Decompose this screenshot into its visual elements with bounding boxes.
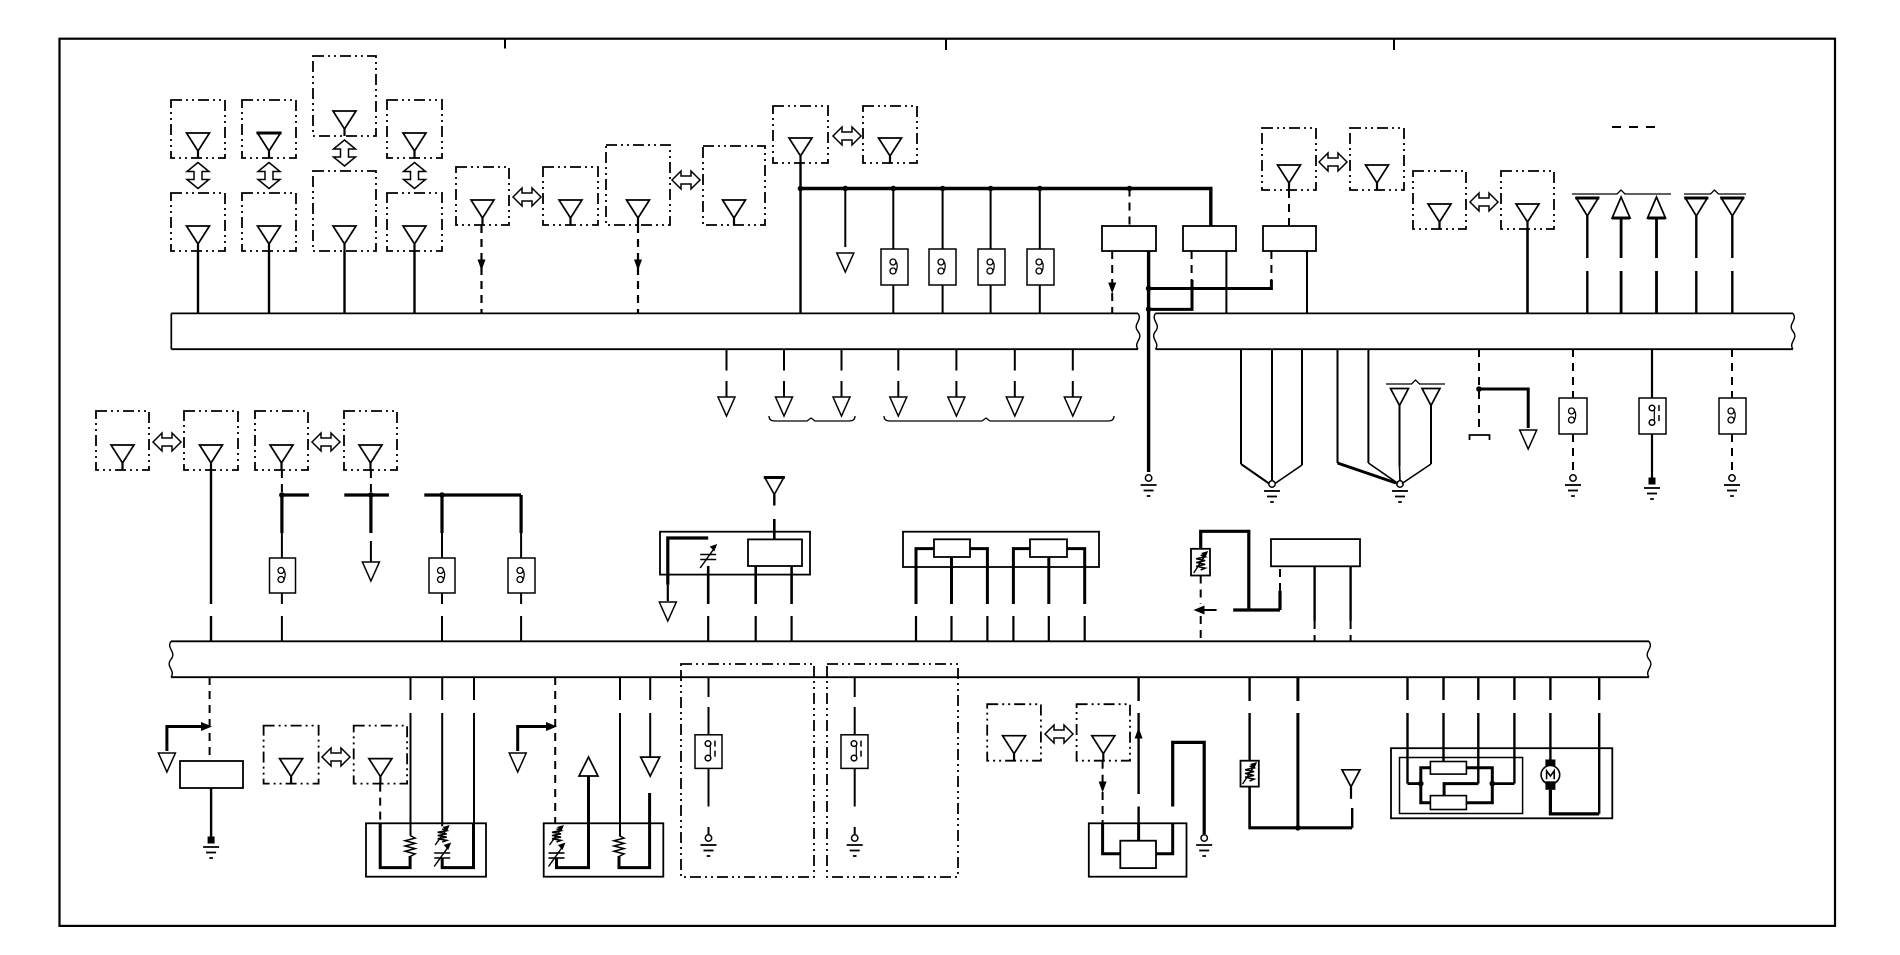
mating arrow I1-I2 [1470, 193, 1498, 211]
ground relay (bolted) [203, 837, 219, 859]
bottom amp module [1120, 841, 1156, 868]
connector box G1 [773, 106, 828, 163]
VR1 top link [1201, 531, 1249, 610]
wire R2 to bus 2 [619, 677, 621, 836]
spare dashed mark [1612, 126, 1656, 128]
wire J4 to tee [370, 470, 372, 495]
wire right link to bus 2 [473, 677, 475, 823]
terminal T3 (up) [1648, 197, 1666, 218]
feeder wire J2 to bus 2 [210, 470, 212, 641]
coil L7 [270, 558, 296, 593]
mating arrow A1-A2 [187, 163, 209, 189]
control output 1 to bus 2 [1314, 621, 1316, 641]
fold mark tick 2 [945, 38, 947, 50]
connector box F1 [606, 145, 670, 225]
ground fan 1 [1264, 481, 1280, 502]
wire to coil L7 [281, 533, 283, 558]
amp M1 right lead [970, 549, 987, 604]
amp in link [1103, 823, 1121, 854]
wire R1 to bus 2 [410, 677, 412, 836]
wire K2 left [1191, 251, 1193, 281]
motor wire 1 [1408, 677, 1421, 784]
rail junction 6 [1127, 186, 1133, 192]
wire B2 to bus [268, 251, 270, 313]
amp M2 right lead [1067, 549, 1085, 604]
bus output wire 6 [1014, 349, 1016, 398]
wire F1 to bus [637, 225, 639, 313]
wire bus 2 to VR4 [1248, 677, 1250, 761]
wire rail to coil L1 [892, 189, 894, 250]
fan wire 1c [1275, 349, 1302, 484]
wire L4 to bus [1039, 285, 1041, 313]
connector box J4 [344, 411, 397, 470]
motor wire 3 z-link [1444, 677, 1478, 796]
variable resistor VR1 element [1194, 551, 1209, 573]
amp M2 right lead to bus 2 [1084, 616, 1086, 641]
switch SW1 ground wire [708, 768, 710, 834]
RB1 right riser [1466, 768, 1492, 784]
underbrace group 1 [769, 416, 855, 421]
wire D2 to bus [413, 251, 415, 313]
riser junction [1418, 781, 1424, 787]
resistor pack 2 left link [557, 776, 589, 868]
amp M2 centre lead to bus 2 [1048, 616, 1050, 641]
rail junction 3 [940, 186, 946, 192]
wire rail to coil L2 [942, 189, 944, 250]
bus bar 2 [169, 641, 1651, 677]
wire VR2 to bus 2 [441, 677, 443, 826]
ground for trunk [1141, 475, 1157, 496]
tuner cap output wire [707, 566, 710, 604]
signal arrow on wire F1 [634, 260, 642, 271]
ground S1 (bolted) [1644, 478, 1660, 500]
amp M1 centre lead to bus 2 [950, 616, 952, 641]
variable resistor VR1 box [1191, 549, 1210, 576]
wire T5 to bus [1731, 216, 1733, 313]
mating arrow D1-D2 [404, 163, 426, 189]
roof antenna [764, 478, 785, 506]
dashed drop with tee [1478, 349, 1480, 431]
wire T2 to bus [1620, 218, 1623, 313]
wire K3 right to bus [1306, 251, 1308, 313]
resistor R2 [614, 836, 624, 857]
terminal group overline 2 [1684, 190, 1746, 194]
branch arrow into VR3 drop [518, 722, 557, 751]
ground SW2 [847, 835, 863, 856]
wire C2 to bus [343, 251, 345, 313]
tuner module output 1 [754, 566, 757, 604]
link rail riser [1278, 591, 1281, 610]
bus output wire 7 [1072, 349, 1074, 398]
mating arrow H1-H2 [1319, 153, 1347, 171]
control output 2 to bus 2 [1350, 621, 1352, 641]
RB1 left riser [1421, 768, 1431, 803]
amp M2 left lead to bus 2 [1012, 616, 1014, 641]
tee terminal [1470, 435, 1490, 440]
open arrow left 1 [158, 753, 175, 772]
connector box J1 [96, 411, 149, 470]
tuner unit box [660, 532, 810, 575]
amp side loop to ground [1173, 742, 1205, 834]
fan wire 1b [1271, 349, 1273, 480]
open arrow under tuner [659, 585, 676, 621]
mating arrow E1-E2 [513, 188, 541, 206]
amp module M1 [934, 539, 970, 557]
amp module M2 [1030, 539, 1067, 557]
connector box P1 [987, 704, 1041, 761]
connector box A1 [171, 100, 225, 158]
connector box H1 [1262, 128, 1316, 190]
wire bus to contact S1 [1651, 349, 1653, 398]
motor wire 5 [1549, 677, 1551, 760]
wire K1 left to bus [1111, 251, 1113, 313]
wire bus to coil L6 [1731, 349, 1733, 398]
wire bus 2 to down arrow [649, 677, 651, 757]
tuner module box [748, 539, 802, 566]
motor wire 6 [1598, 677, 1600, 814]
variable resistor VR2 [435, 825, 450, 845]
connector box C1 [313, 56, 376, 136]
terminal group overline 1 [1572, 190, 1671, 194]
wire L6 to ground [1731, 434, 1733, 474]
amp M1 right lead to bus 2 [986, 616, 988, 641]
trunk junction upper [1146, 286, 1152, 292]
wire I2 to bus [1526, 229, 1529, 313]
mating arrow F1-F2 [672, 171, 700, 189]
connector box C2 [313, 171, 376, 251]
terminal U1 [1391, 389, 1409, 406]
amp M2 centre lead [1047, 557, 1050, 604]
bus bar 1 left segment [171, 313, 1140, 349]
open arrow below branch [1520, 430, 1537, 449]
switch SW1 [695, 735, 722, 769]
motor wire 4 [1492, 677, 1514, 784]
wire rail to coil L4 [1039, 189, 1041, 250]
open arrow terminal J [362, 562, 379, 581]
wire L9 to bus 2 [520, 593, 522, 641]
coil L5 [1559, 398, 1587, 434]
wire L3 to bus [990, 285, 992, 313]
coil L4 [1027, 249, 1054, 285]
switch SW2 ground wire [854, 768, 856, 834]
resistor pack 2 right link [619, 793, 650, 868]
connector box B2 [242, 193, 296, 251]
wire L8 to bus 2 [441, 593, 443, 641]
signal arrow on wire E1 [478, 260, 486, 271]
switch feed wire 2 [854, 677, 856, 735]
rail drop to bus [799, 189, 801, 314]
rail junction 4 [988, 186, 994, 192]
amp M1 left lead to bus 2 [915, 616, 917, 641]
wire L2 to bus [942, 285, 944, 313]
motor M [1541, 760, 1560, 790]
motor wire 2 [1442, 677, 1444, 762]
switch feed wire 1 [708, 677, 710, 735]
resistor pack 1 box [366, 823, 486, 876]
ground amp loop [1196, 835, 1212, 856]
tuner module output 2 [790, 566, 793, 604]
VR4 output wire [1248, 787, 1251, 828]
mating arrow P1-P2 [1045, 725, 1073, 743]
bottom amp box [1089, 823, 1187, 876]
riser junction 2 [1490, 781, 1496, 787]
blower resistor RB1 [1430, 762, 1466, 775]
control unit box [1271, 539, 1360, 566]
RB2 right riser [1466, 784, 1492, 803]
mating arrow G1-G2 [833, 127, 861, 145]
amplifier unit box [903, 532, 1099, 567]
stub wire with arrow [370, 541, 372, 562]
control output 2 [1349, 566, 1351, 621]
open arrow under rail stub [837, 253, 854, 272]
wire P2 down [1102, 761, 1104, 782]
mating arrow C1-C2 [334, 140, 356, 166]
signal arrow on K1 wire [1108, 283, 1116, 294]
open arrow terminal 5 [948, 397, 965, 416]
connector box J2 [184, 411, 238, 470]
control output 1 [1313, 566, 1315, 621]
coil L9 [508, 558, 535, 593]
riser dashed to control box [1279, 566, 1281, 591]
junction on dashed drop [1476, 386, 1482, 392]
motor return loop [1550, 790, 1599, 814]
ground SW1 [701, 835, 717, 856]
relay unit box [180, 761, 243, 788]
bus bar 1 right segment [1154, 313, 1795, 349]
resistor R1 [405, 836, 415, 857]
terminal T2 (up) [1612, 197, 1630, 218]
variable capacitor VC2 [434, 843, 451, 867]
open arrow terminal 1 [718, 397, 735, 416]
coil L3 [978, 249, 1005, 285]
coil L2 [929, 249, 956, 285]
wire N2 to resistor box [379, 784, 381, 823]
connector box D2 [387, 193, 442, 251]
variable resistor VR4 box [1241, 761, 1259, 787]
link rail [1233, 608, 1280, 611]
ground L5 [1565, 475, 1581, 496]
wire amp centre lower [1137, 807, 1139, 824]
ground L6 [1724, 475, 1740, 496]
connector box P2 [1077, 704, 1130, 761]
pointer arrow on VR1 wire [1194, 606, 1217, 615]
block K1 [1102, 226, 1156, 251]
bus output wire 1 [726, 349, 728, 398]
wire E1 to bus [480, 225, 482, 313]
connector box B1 [242, 100, 296, 158]
ground fan 2 [1392, 481, 1408, 502]
variable resistor VR4 element [1243, 762, 1258, 784]
bus output wire 3 [841, 349, 843, 398]
blower resistor RB2 [1430, 796, 1466, 810]
collector rail [1248, 826, 1352, 829]
open arrow terminal 7 [1064, 397, 1081, 416]
connector box N2 [354, 726, 407, 784]
tee junction 3 [424, 492, 521, 533]
rail junction 5 [1037, 186, 1043, 192]
amp centre link [1137, 823, 1140, 840]
wire L5 to ground [1572, 434, 1574, 474]
down arrow terminal [641, 757, 660, 776]
signal arrow up on centre wire [1135, 728, 1143, 739]
wire K3 left [1270, 251, 1272, 281]
branch arrow into drop [167, 722, 212, 751]
tuner module output 1 to bus 2 [755, 616, 757, 641]
connector box E2 [543, 167, 598, 225]
amp M2 left lead [1013, 549, 1030, 604]
branch to K2 left [1149, 280, 1192, 309]
wire G1 to rail [799, 163, 801, 189]
wire L1 to bus [892, 285, 894, 313]
branch to K3 left [1149, 280, 1272, 289]
collector rail junction [1295, 825, 1301, 831]
terminal T4 [1684, 198, 1708, 216]
variable capacitor VC1 [700, 544, 717, 568]
open arrow terminal 3 [833, 397, 850, 416]
rail junction 1 [843, 186, 849, 192]
resistor pack 2 box [544, 823, 664, 876]
bus output wire 2 [783, 349, 785, 398]
option unit box 1 [681, 664, 814, 877]
antenna feed wire [773, 519, 776, 539]
coil L6 [1719, 398, 1746, 434]
terminal U2 [1422, 389, 1440, 406]
VR1 bottom dashed wire [1200, 576, 1202, 605]
wire T3 to bus [1655, 218, 1658, 313]
bus output wire 4 [897, 349, 899, 398]
wire T4 to bus [1695, 216, 1697, 313]
fold mark tick 1 [504, 38, 506, 49]
fan wire 1a [1241, 349, 1269, 484]
wire P2 to amp [1102, 792, 1104, 823]
up arrow terminal [579, 757, 598, 776]
wire to coil L8 [441, 533, 443, 558]
open arrow terminal 2 [776, 397, 793, 416]
amp M1 left lead [916, 549, 934, 604]
bus output wire 5 [955, 349, 957, 398]
rail stub with arrow [844, 189, 846, 248]
contact unit S1 [1639, 398, 1666, 434]
fan wire 2a [1338, 349, 1397, 483]
signal arrow on P2 wire [1099, 782, 1107, 793]
block K3 [1263, 226, 1316, 251]
tuner internal link [668, 538, 708, 585]
wire rail to block K1 [1129, 189, 1131, 227]
tee junction 1 [279, 492, 309, 533]
power rail [801, 189, 1211, 227]
block K2 [1183, 226, 1236, 251]
resistor pack 1 left link [380, 823, 410, 867]
fan wire 2d [1402, 406, 1431, 484]
mating arrow J3-J4 [312, 433, 340, 451]
trunk wire K1 to ground [1147, 251, 1150, 472]
amp M1 centre lead [950, 557, 953, 604]
connector box E1 [456, 167, 509, 225]
coil L1 [881, 249, 908, 285]
connector box A2 [171, 193, 225, 251]
aerial terminal Y [1342, 770, 1360, 799]
wire bus to coil L5 [1572, 349, 1574, 398]
connector box D1 [387, 100, 442, 158]
relay ground wire [210, 788, 212, 838]
resistor block box [1400, 758, 1523, 814]
rail junction 0 [798, 186, 804, 192]
wire rail to coil L3 [990, 189, 992, 250]
open arrow terminal 4 [890, 397, 907, 416]
fold mark tick 3 [1393, 38, 1395, 50]
wire T1 to bus [1586, 216, 1588, 313]
terminal T1 [1575, 198, 1599, 216]
VR1 wire to bus 2 [1200, 616, 1202, 641]
wire bus 2 to amp centre [1137, 677, 1139, 794]
terminal pair overline [1386, 380, 1445, 384]
wire J3 to tee [281, 470, 283, 495]
resistor pack 1 right link [442, 823, 473, 867]
mating arrow B1-B2 [258, 163, 280, 189]
wire S1 to ground [1651, 434, 1653, 478]
variable capacitor VC3 [549, 843, 566, 867]
fan wire 2c [1399, 406, 1402, 482]
mating arrow N1-N2 [322, 748, 350, 766]
mating arrow J1-J2 [153, 433, 181, 451]
fan wire 2b [1368, 349, 1398, 484]
connector box I1 [1413, 171, 1466, 229]
motor assembly box [1391, 748, 1612, 818]
terminal T5 [1720, 198, 1744, 216]
amp right link [1156, 823, 1173, 854]
aerial wire to collector [1351, 808, 1353, 828]
tee junction 2 [344, 492, 389, 533]
tuner module output 2 to bus 2 [790, 616, 792, 641]
wire H1 to K3 [1288, 190, 1290, 226]
coil L8 [429, 558, 455, 593]
dashed drop to VR3 [554, 677, 556, 823]
dashed drop to relay [209, 677, 211, 761]
branch to open arrow [1479, 389, 1528, 428]
wire L7 to bus 2 [281, 593, 283, 641]
wire A2 to bus [197, 251, 199, 313]
connector box J3 [255, 411, 308, 470]
rail junction 2 [891, 186, 897, 192]
switch SW2 [841, 735, 868, 769]
open arrow terminal 6 [1006, 397, 1023, 416]
connector box F2 [703, 146, 765, 225]
connector box G2 [863, 106, 917, 163]
wire bus 2 to collector [1296, 677, 1299, 828]
open arrow left 2 [509, 753, 526, 772]
connector box I2 [1501, 171, 1554, 229]
tuner cap wire to bus 2 [707, 616, 709, 641]
connector box N1 [264, 726, 319, 784]
connector box H2 [1350, 128, 1404, 190]
variable resistor VR3 [550, 825, 565, 845]
wire to coil L9 [520, 533, 522, 558]
option unit box 2 [827, 664, 958, 877]
wire K2 right to bus [1225, 251, 1227, 313]
underbrace group 2 [884, 416, 1114, 421]
trunk junction lower [1146, 306, 1152, 312]
